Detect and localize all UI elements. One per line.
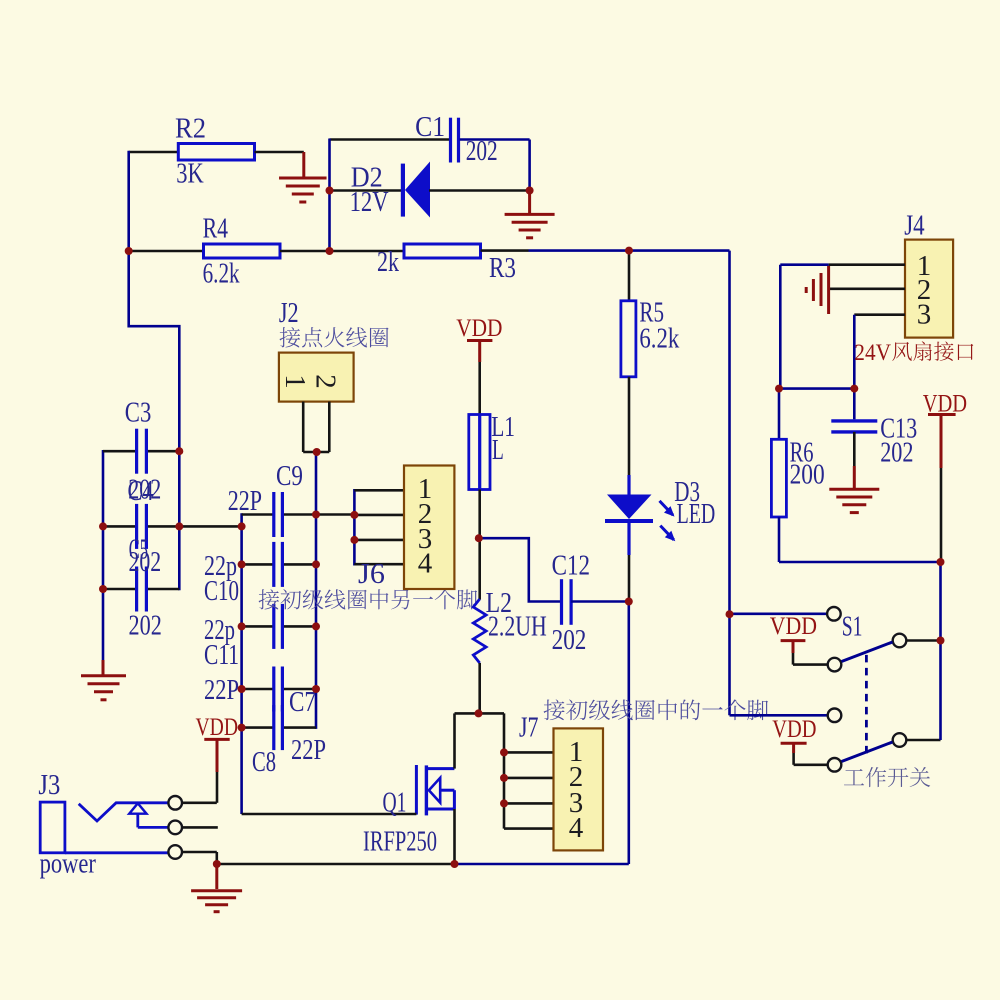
svg-text:2: 2 — [310, 374, 342, 389]
svg-text:power: power — [40, 849, 97, 880]
svg-text:C9: C9 — [276, 461, 303, 492]
svg-text:J3: J3 — [38, 770, 60, 801]
svg-text:22P: 22P — [291, 735, 326, 766]
svg-text:202: 202 — [880, 438, 913, 469]
svg-text:R3: R3 — [489, 253, 516, 284]
svg-text:2k: 2k — [377, 247, 399, 278]
svg-text:24V: 24V — [854, 340, 891, 365]
svg-text:22P: 22P — [228, 486, 262, 517]
svg-text:4: 4 — [418, 548, 433, 580]
svg-text:3K: 3K — [176, 159, 204, 190]
svg-text:202: 202 — [129, 611, 162, 642]
svg-text:4: 4 — [569, 812, 584, 844]
svg-text:C8: C8 — [252, 747, 276, 778]
svg-text:6.2k: 6.2k — [639, 323, 679, 354]
svg-text:VDD: VDD — [772, 716, 816, 743]
svg-text:22P: 22P — [204, 675, 239, 706]
svg-text:C10: C10 — [204, 576, 239, 607]
svg-text:C7: C7 — [289, 687, 316, 718]
svg-text:202: 202 — [552, 625, 587, 656]
svg-text:VDD: VDD — [196, 714, 239, 741]
svg-text:C4: C4 — [128, 476, 154, 507]
svg-text:202: 202 — [129, 547, 162, 578]
svg-text:S1: S1 — [842, 611, 863, 642]
svg-text:C12: C12 — [552, 550, 590, 581]
svg-text:C1: C1 — [415, 112, 445, 143]
svg-text:VDD: VDD — [770, 613, 817, 640]
svg-text:R4: R4 — [203, 214, 228, 245]
svg-text:6.2k: 6.2k — [203, 259, 240, 290]
svg-text:VDD: VDD — [456, 315, 502, 342]
svg-text:12V: 12V — [350, 187, 389, 218]
svg-text:L: L — [492, 435, 504, 466]
svg-text:R2: R2 — [175, 114, 206, 145]
svg-text:J6: J6 — [358, 559, 385, 590]
svg-text:J7: J7 — [519, 713, 539, 744]
svg-text:J2: J2 — [279, 298, 299, 329]
svg-text:LED: LED — [677, 499, 716, 530]
svg-text:IRFP250: IRFP250 — [363, 827, 437, 858]
svg-text:3: 3 — [917, 299, 932, 331]
svg-text:C3: C3 — [125, 398, 152, 429]
svg-text:C11: C11 — [204, 640, 239, 671]
svg-text:1: 1 — [279, 374, 311, 389]
svg-text:J4: J4 — [904, 211, 924, 242]
svg-text:200: 200 — [790, 460, 825, 491]
svg-text:Q1: Q1 — [383, 788, 407, 819]
svg-text:2.2UH: 2.2UH — [488, 612, 547, 643]
svg-text:202: 202 — [466, 136, 498, 167]
